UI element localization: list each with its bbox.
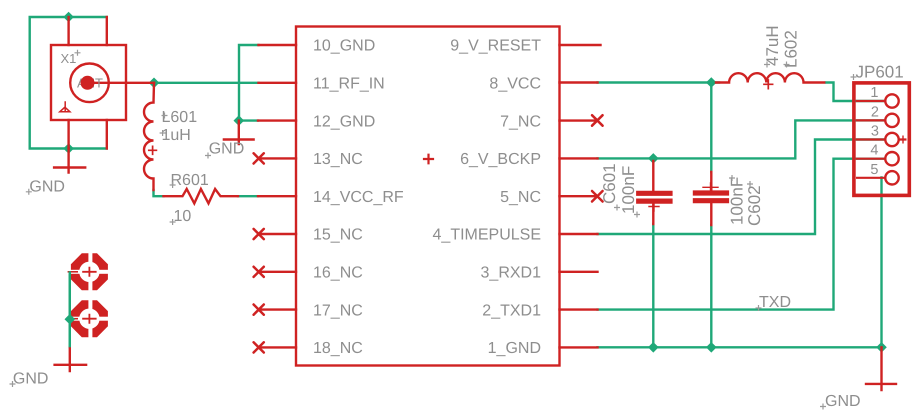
pin 8_VCC stub [560, 81, 598, 83]
svg-text:2_TXD1: 2_TXD1 [482, 302, 541, 319]
ground symbol antenna [54, 149, 85, 173]
no-connect X pin7 [592, 115, 603, 126]
wire C602 top lead [710, 83, 712, 173]
pin 4_TIMEPULSE stub [560, 233, 598, 235]
origin cross 100nF C602 [729, 175, 735, 181]
mount pad H1 [67, 251, 111, 293]
svg-text:18_NC: 18_NC [313, 340, 363, 357]
svg-text:GND: GND [209, 141, 245, 158]
L602 origin cross [764, 80, 773, 89]
pin 2_TXD1 stub [560, 308, 598, 310]
pin 7_NC stub [560, 119, 598, 121]
svg-text:5_NC: 5_NC [500, 189, 541, 206]
JP601 pin1 circle [885, 94, 898, 107]
wire antenna top horizontal [30, 17, 107, 149]
JP601 pin4 line [856, 158, 886, 160]
origin cross TXD [756, 305, 762, 311]
connector JP601 box [854, 83, 909, 195]
wire GND net bottom [598, 346, 882, 348]
inductor L601 [144, 83, 154, 190]
svg-text:4_TIMEPULSE: 4_TIMEPULSE [433, 227, 541, 244]
origin cross 47uH [764, 62, 770, 68]
wire pads to GND [69, 271, 71, 347]
pin 1_GND stub [560, 346, 598, 348]
svg-text:3: 3 [871, 124, 879, 140]
origin cross JP601 [851, 74, 857, 80]
svg-text:C602: C602 [745, 185, 764, 226]
svg-text:TXD: TXD [759, 294, 791, 311]
wire R601 to 14_VCC_RF [238, 195, 258, 197]
pin 12_GND stub [258, 119, 296, 121]
wire TIMEPULSE net to JP601 pin3 [598, 140, 887, 235]
svg-text:17_NC: 17_NC [313, 302, 363, 319]
svg-text:10_GND: 10_GND [313, 38, 375, 55]
pin 18_NC stub [259, 346, 296, 348]
JP601 pin3 circle [885, 133, 898, 146]
svg-text:R601: R601 [171, 172, 209, 189]
no-connect X pin16 [254, 267, 264, 277]
junction node antenna top [63, 12, 74, 23]
antenna stub top-right [106, 17, 108, 45]
origin cross L602 [784, 62, 790, 68]
no-connect X pin15 [254, 229, 264, 239]
svg-text:16_NC: 16_NC [313, 265, 363, 282]
svg-text:100nF: 100nF [619, 166, 638, 214]
svg-text:8_VCC: 8_VCC [489, 76, 541, 93]
origin cross GND bottom-left [10, 381, 16, 387]
junction node 12_GND [233, 115, 244, 126]
svg-text:4: 4 [870, 143, 878, 159]
svg-text:12_GND: 12_GND [313, 113, 375, 130]
origin cross 100nF C601 [634, 212, 640, 218]
svg-text:C601: C601 [600, 163, 619, 204]
origin cross L601 [162, 113, 168, 119]
wire TXD net to JP601 pin4 [598, 159, 887, 310]
svg-text:GND: GND [825, 393, 861, 410]
junction node antenna bottom [63, 143, 74, 154]
C601 origin cross [649, 202, 659, 211]
svg-text:14_VCC_RF: 14_VCC_RF [313, 189, 404, 206]
origin cross C602 [747, 181, 753, 187]
pin 9_V_RESET stub [560, 44, 601, 46]
antenna stub top-left [67, 17, 69, 45]
svg-text:GND: GND [29, 178, 65, 195]
origin cross GND mid [205, 153, 211, 159]
svg-text:3_RXD1: 3_RXD1 [481, 265, 542, 282]
junction node RF_IN/L601 [149, 77, 160, 88]
pin 6_V_BCKP stub [560, 157, 598, 159]
svg-text:11_RF_IN: 11_RF_IN [313, 76, 385, 93]
ground symbol bottom-left [55, 347, 87, 371]
wire RF_IN net [154, 82, 259, 84]
junction node pads overlay [64, 314, 75, 325]
svg-text:GND: GND [13, 370, 49, 387]
capacitor C602 plates [695, 193, 726, 201]
capacitor C601 plates [639, 193, 670, 201]
origin cross GND antenna [26, 189, 32, 195]
pin 11_RF_IN stub [259, 82, 297, 84]
origin cross R601 [170, 182, 176, 188]
JP601 pin2 circle [885, 114, 898, 127]
no-connect X pin17 [254, 305, 264, 315]
junction node VCC/C602 [706, 77, 717, 88]
wire C602 bottom lead [710, 225, 712, 347]
pin 15_NC stub [259, 233, 296, 235]
svg-text:1_GND: 1_GND [488, 340, 541, 357]
wire VCC net to L602 [598, 81, 720, 83]
pin 16_NC stub [259, 271, 296, 273]
svg-text:7_NC: 7_NC [500, 113, 541, 130]
no-connect X pin13 [254, 153, 264, 163]
svg-text:10: 10 [174, 208, 192, 225]
ground symbol mid [224, 121, 254, 145]
wire L601 to R601 corner [154, 190, 164, 196]
svg-text:JP601: JP601 [856, 63, 904, 82]
origin cross 10 [170, 219, 176, 225]
no-connect X pin5 [592, 191, 603, 202]
pin 5_NC stub [560, 195, 598, 197]
pin 14_VCC_RF stub [258, 195, 296, 197]
resistor R601 [164, 189, 239, 203]
origin cross X1 [75, 50, 81, 56]
svg-text:1uH: 1uH [162, 127, 191, 144]
svg-text:100nF: 100nF [728, 177, 747, 225]
wire C601 bottom lead [652, 224, 654, 347]
IC U601 box [296, 27, 560, 366]
svg-text:X1: X1 [61, 51, 77, 66]
antenna feed dot [81, 76, 95, 90]
antenna circle [70, 64, 109, 103]
origin cross GND bottom-right [820, 404, 826, 410]
svg-text:9_V_RESET: 9_V_RESET [450, 38, 541, 55]
JP601 pin4 circle [885, 152, 898, 165]
origin cross 1uH [160, 130, 166, 136]
svg-text:6_V_BCKP: 6_V_BCKP [460, 151, 541, 168]
svg-text:13_NC: 13_NC [313, 151, 363, 168]
no-connect X pin18 [254, 342, 264, 352]
pin 17_NC stub [259, 308, 296, 310]
JP601 pin3 origin tick [902, 136, 904, 144]
svg-text:47uH: 47uH [763, 25, 782, 66]
C602 origin cross [703, 183, 718, 192]
wire pads to GND overlay [69, 271, 71, 347]
mount pad H2 [67, 298, 111, 340]
pin 13_NC stub [259, 157, 296, 159]
wire V_BCKP net to JP601 pin2 [598, 120, 887, 158]
antenna stub bottom-right [106, 120, 108, 149]
svg-text:15_NC: 15_NC [313, 227, 363, 244]
junction node GND/JP5 [876, 342, 887, 353]
JP601 pin5 circle [885, 171, 898, 184]
JP601 pin5 line [856, 177, 886, 179]
antenna stub bottom-left [67, 120, 69, 149]
pin 3_RXD1 stub [560, 271, 598, 273]
junction node GND/C602 [706, 342, 717, 353]
inductor L602 [716, 73, 824, 82]
junction node GND/C601 [648, 342, 659, 353]
capacitor C601 leads [652, 161, 654, 224]
L601 origin cross [149, 146, 157, 154]
origin cross C601 [614, 205, 620, 211]
wire JP601 pin5 to GND [880, 177, 882, 347]
IC origin cross [424, 155, 433, 164]
JP601 pin3 line [856, 138, 907, 140]
ground symbol bottom-right [866, 347, 896, 390]
svg-text:2: 2 [871, 104, 879, 120]
antenna gnd-pin triangle [60, 102, 70, 112]
junction node BCKP/C601 [648, 153, 659, 164]
svg-text:1: 1 [870, 85, 878, 101]
svg-text:L601: L601 [162, 109, 198, 126]
capacitor C602 leads [710, 172, 712, 225]
pin 10_GND stub [259, 44, 297, 46]
svg-text:L602: L602 [782, 30, 801, 68]
JP601 pin1 line [856, 100, 886, 102]
wire L602 to JP601 pin1 [826, 83, 886, 102]
antenna X1 box [51, 45, 126, 120]
antenna feed wire [90, 82, 155, 84]
wire 10_GND jog [239, 45, 259, 121]
JP601 pin2 line [856, 119, 886, 121]
svg-text:5: 5 [870, 162, 878, 178]
